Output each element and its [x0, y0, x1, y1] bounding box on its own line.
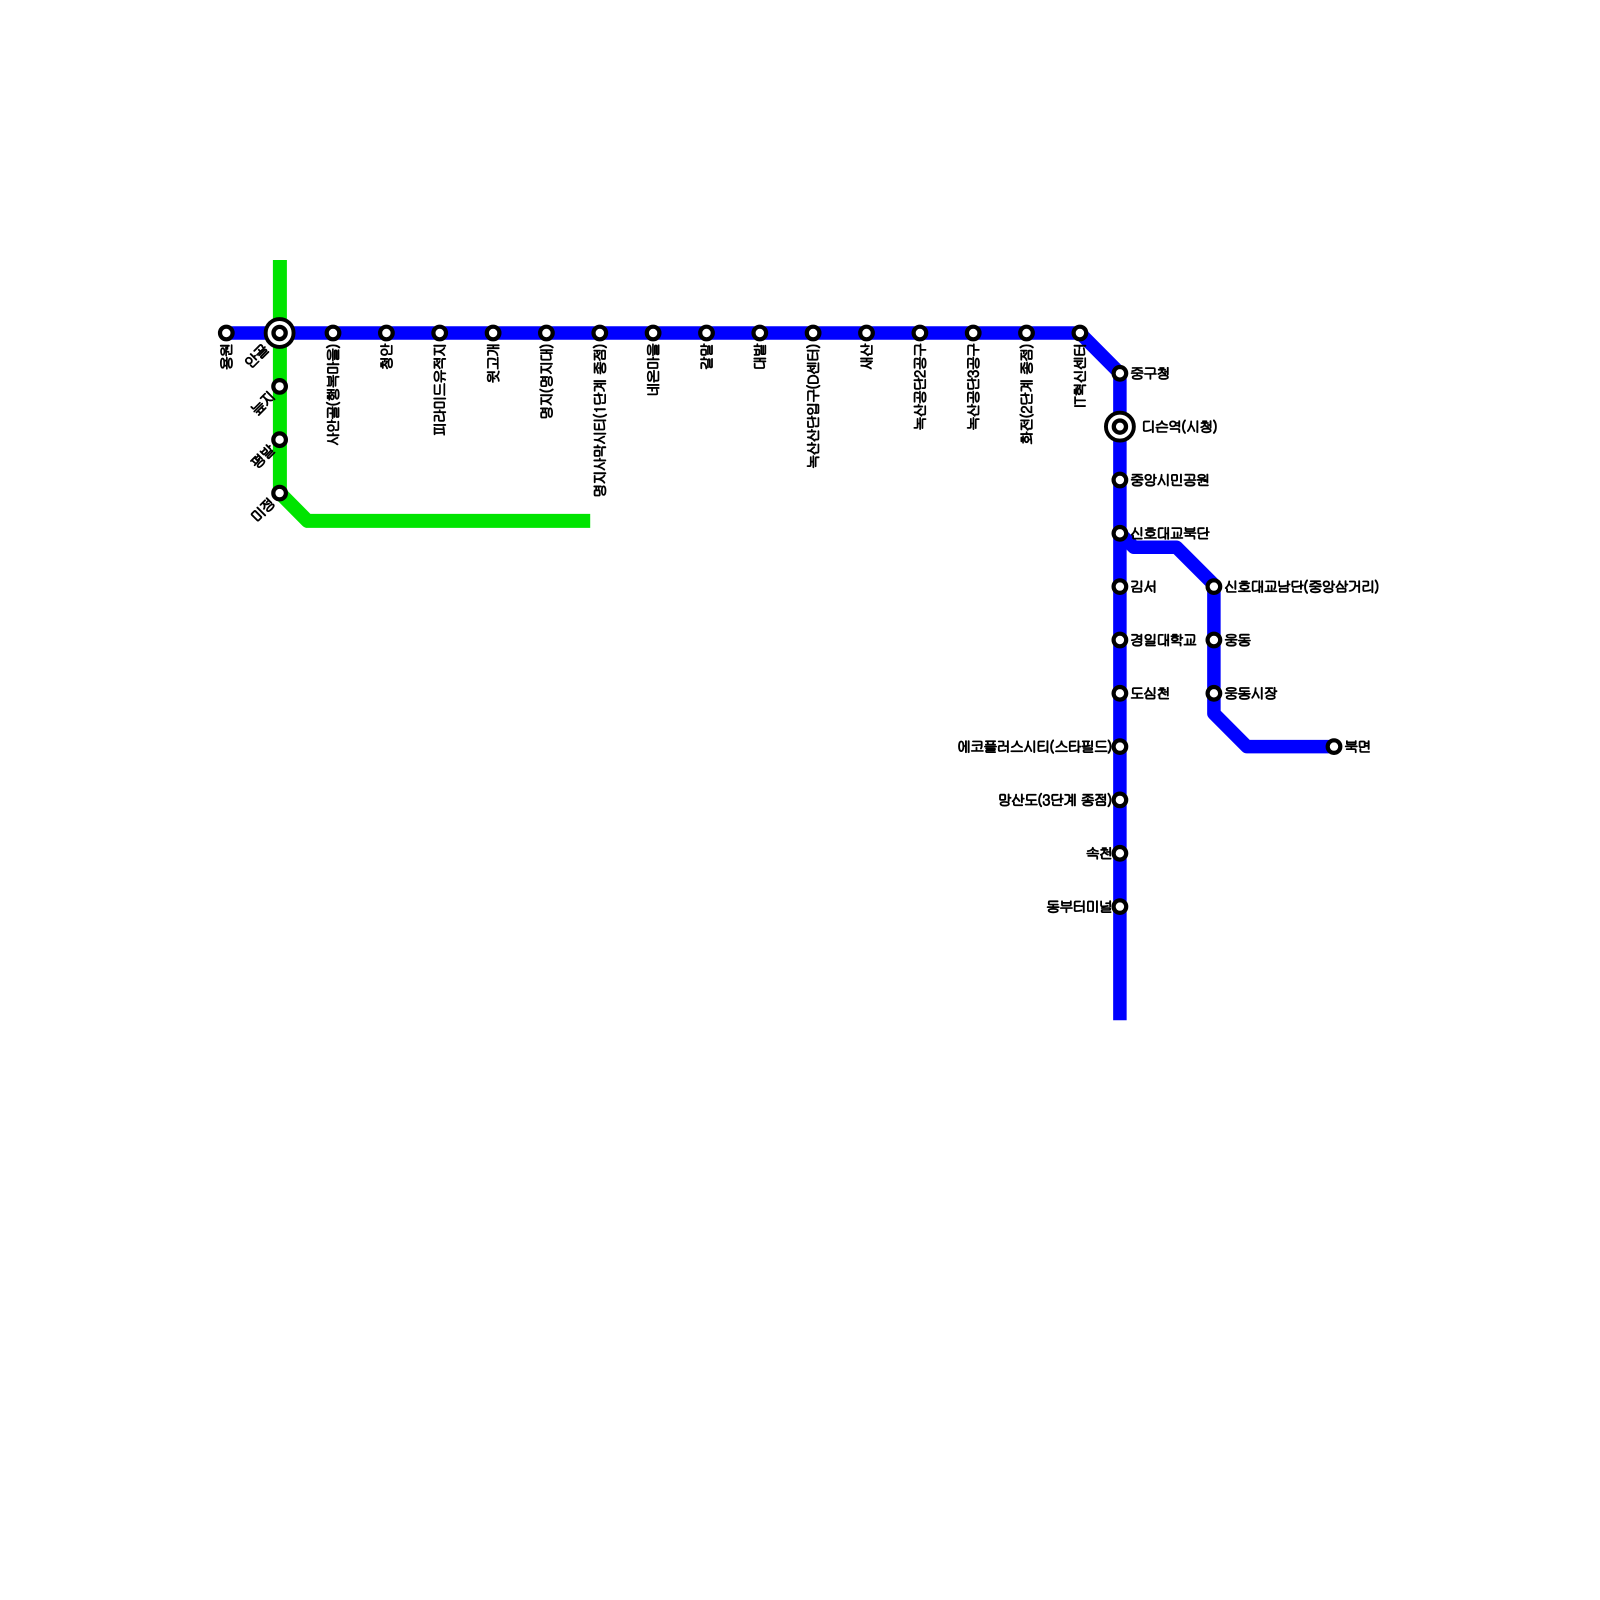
- station 윗고개: [487, 327, 500, 340]
- station 도심천: [1114, 687, 1127, 700]
- station 명지(명지대): [540, 327, 553, 340]
- station 명지사막시티(1단계 종점): [594, 327, 607, 340]
- station 신호대교북단: [1114, 527, 1127, 540]
- label 망산도(3단계 종점): [1000, 793, 1111, 806]
- label 대밭: [754, 344, 766, 369]
- station 신호대교남단(중앙삼거리): [1208, 580, 1221, 593]
- label 미정: [250, 498, 275, 523]
- label 녹산공단3공구: [967, 344, 979, 430]
- label 평발: [250, 443, 276, 469]
- label 안골: [244, 343, 270, 369]
- label 녹산공단2공구: [914, 344, 926, 430]
- label 새산: [861, 344, 873, 369]
- blue line 1 branch: [1120, 533, 1334, 746]
- station 속천: [1114, 847, 1127, 860]
- station 김서: [1114, 580, 1127, 593]
- label 네온마을: [647, 344, 659, 395]
- station 용원: [220, 327, 233, 340]
- station 새산: [860, 327, 873, 340]
- station 동부터미널: [1114, 900, 1127, 913]
- label 갈말: [701, 344, 713, 369]
- station 북면: [1328, 740, 1341, 753]
- label 에코플러스시티(스타필드): [959, 740, 1111, 753]
- label 용원: [220, 345, 232, 369]
- label 늪지: [250, 391, 275, 416]
- label 웅동: [1225, 634, 1250, 646]
- station 평발: [273, 433, 286, 446]
- station 네온마을: [647, 327, 660, 340]
- label 청안: [380, 344, 392, 369]
- label 피라미드유적지: [434, 345, 446, 435]
- label 신호대교남단(중앙삼거리): [1225, 580, 1378, 593]
- station 대밭: [754, 327, 767, 340]
- station 피라미드유적지: [433, 327, 446, 340]
- station 경일대학교: [1114, 634, 1127, 647]
- label 중구청: [1131, 367, 1168, 379]
- station 중구청: [1114, 367, 1127, 380]
- station 녹산산단입구(D센터): [807, 327, 820, 340]
- label 중앙시민공원: [1131, 474, 1208, 486]
- station 갈말: [700, 327, 713, 340]
- label 경일대학교: [1131, 634, 1196, 646]
- station 화전(2단계 종점): [1020, 327, 1033, 340]
- label 녹산산단입구(D센터): [806, 345, 819, 468]
- station 사안골(행복마을): [327, 327, 340, 340]
- label 속천: [1087, 847, 1111, 859]
- station 디슨역(시청): [1106, 413, 1134, 441]
- station 웅동: [1208, 634, 1221, 647]
- station 늪지: [273, 380, 286, 393]
- station 망산도(3단계 종점): [1114, 794, 1127, 807]
- label 신호대교북단: [1131, 527, 1209, 539]
- label 화전(2단계 종점): [1020, 345, 1033, 444]
- label 북면: [1345, 741, 1369, 753]
- green line 2: [280, 260, 590, 521]
- blue line 1 main: [226, 333, 1120, 1020]
- station 녹산공단2공구: [914, 327, 927, 340]
- label 윗고개: [487, 345, 499, 383]
- label 웅동시장: [1225, 687, 1277, 699]
- label IT혁신센터: [1074, 345, 1086, 406]
- label 도심천: [1131, 687, 1168, 699]
- station 녹산공단3공구: [967, 327, 980, 340]
- label 명지(명지대): [540, 345, 553, 418]
- station 에코플러스시티(스타필드): [1114, 740, 1127, 753]
- label 사안골(행복마을): [326, 345, 339, 445]
- label 김서: [1131, 581, 1155, 593]
- station 안골: [266, 319, 294, 347]
- station 미정: [273, 487, 286, 500]
- station 웅동시장: [1208, 687, 1221, 700]
- label 디슨역(시청): [1143, 420, 1216, 433]
- station 중앙시민공원: [1114, 474, 1127, 487]
- station 청안: [380, 327, 393, 340]
- label 명지사막시티(1단계 종점): [593, 345, 606, 496]
- station IT혁신센터: [1074, 327, 1087, 340]
- label 동부터미널: [1047, 901, 1111, 913]
